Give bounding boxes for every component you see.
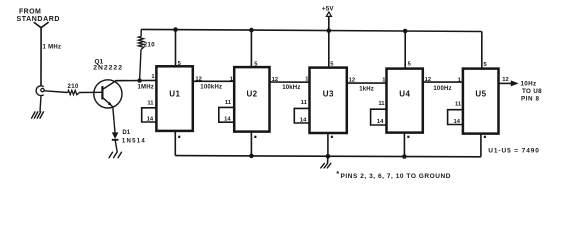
svg-text:210: 210 <box>144 42 155 48</box>
node: rail junction at U3 pin 5 <box>327 28 332 33</box>
wire: U3 pin 11 to pin 14 jumper loop <box>294 108 309 123</box>
svg-text:1N514: 1N514 <box>122 139 146 145</box>
svg-text:1kHz: 1kHz <box>359 86 374 92</box>
IC U3 (7490 decade counter) <box>310 68 347 133</box>
svg-text:14: 14 <box>224 117 231 123</box>
svg-text:10kHz: 10kHz <box>282 85 300 91</box>
node: ground rail junction at U2 <box>249 154 254 159</box>
svg-text:14: 14 <box>300 117 307 123</box>
wire: U2 pin 5 to +5V rail <box>250 30 252 67</box>
svg-text:11: 11 <box>147 100 154 106</box>
node: rail junction at U2 pin 5 <box>249 28 254 33</box>
resistor R2 210 (collector pull-up) <box>138 29 155 80</box>
wire: input drop to jack <box>40 28 42 86</box>
wire: U2 pin 11 to pin 14 jumper loop <box>219 107 234 122</box>
wire: U4 pin 5 to +5V rail <box>404 31 406 69</box>
wire: +5V rail (top) <box>141 29 482 31</box>
svg-text:*: * <box>336 169 339 178</box>
svg-text:U1: U1 <box>169 89 180 98</box>
svg-text:1 MHz: 1 MHz <box>43 45 62 51</box>
svg-text:2N2222: 2N2222 <box>93 64 123 71</box>
svg-text:STANDARD: STANDARD <box>17 16 61 23</box>
IC U4 (7490 decade counter) <box>387 69 423 133</box>
node: ground rail junction at U3 <box>326 154 331 159</box>
svg-text:PIN 8: PIN 8 <box>521 96 540 103</box>
diode D1 1N514 <box>112 130 146 144</box>
wire: U1 pin 5 to +5V rail <box>175 30 177 67</box>
svg-text:U3: U3 <box>323 89 334 98</box>
wire: U5 ground pin down to ground rail <box>480 134 482 157</box>
wire: emitter to diode D1 <box>113 107 115 132</box>
wire: jack shell to ground <box>40 96 41 112</box>
svg-text:U1-U5 = 7490: U1-U5 = 7490 <box>488 148 539 155</box>
svg-text:U5: U5 <box>475 89 486 98</box>
wire: U5 pin 12 output <box>499 82 512 84</box>
svg-text:5: 5 <box>484 62 488 68</box>
wire: jack to resistor R1 <box>44 91 67 93</box>
wire: U3 ground pin down to ground rail <box>327 133 329 156</box>
node: collector junction <box>137 78 141 82</box>
pin note asterisk U4 <box>407 136 409 138</box>
pin note asterisk U3 <box>331 136 333 138</box>
wire: ground rail stem <box>327 156 329 163</box>
svg-text:+5V: +5V <box>322 5 334 12</box>
svg-text:U2: U2 <box>247 89 258 98</box>
svg-text:PINS 2, 3, 6, 7, 10 TO GROUND: PINS 2, 3, 6, 7, 10 TO GROUND <box>341 173 451 180</box>
svg-text:100kHz: 100kHz <box>200 84 222 90</box>
wire: rail drop to U5 pin 5 <box>481 32 483 69</box>
wire: U2 pin 12 to U3 pin 1 <box>270 81 310 83</box>
wire: U3 pin 5 to +5V rail <box>328 31 330 68</box>
svg-text:5: 5 <box>408 61 412 67</box>
wire: U1 pin 12 to U2 pin 1 <box>193 80 234 82</box>
ground (rail) <box>321 163 331 168</box>
IC U1 (7490 decade counter) <box>156 66 192 131</box>
node: rail junction at U1 pin 5 <box>173 27 178 32</box>
wire: U3 pin 12 to U4 pin 1 <box>347 82 387 84</box>
power +5V <box>322 5 334 30</box>
wire: U1 pin 11 to pin 14 jumper loop <box>142 108 157 122</box>
wire: collector to U1 pin 1 <box>115 79 156 81</box>
svg-text:U4: U4 <box>399 89 410 98</box>
svg-text:TO U8: TO U8 <box>522 88 542 95</box>
svg-text:11: 11 <box>455 102 462 108</box>
pin note asterisk U2 <box>254 136 256 138</box>
wire: U5 pin 11 to pin 14 jumper loop <box>448 110 463 125</box>
node: rail junction at U4 pin 5 <box>403 29 408 34</box>
output arrow <box>511 80 519 86</box>
svg-text:D1: D1 <box>122 130 130 136</box>
connector J1 (input jack) <box>36 86 44 96</box>
svg-text:11: 11 <box>225 100 232 106</box>
pin note asterisk U5 <box>484 136 486 138</box>
svg-text:11: 11 <box>301 100 308 106</box>
svg-text:12: 12 <box>502 77 508 83</box>
svg-text:FROM: FROM <box>19 9 41 16</box>
wire: U4 pin 12 to U5 pin 1 <box>423 81 463 83</box>
wire: U4 ground pin down to ground rail <box>403 133 405 157</box>
svg-text:14: 14 <box>454 119 461 125</box>
svg-text:100Hz: 100Hz <box>433 86 451 92</box>
transistor Q1 2N2222 <box>94 80 122 108</box>
ground (jack shell) <box>32 112 44 118</box>
wire: R1 to Q1 base <box>79 91 102 93</box>
svg-text:14: 14 <box>147 117 154 123</box>
svg-text:1: 1 <box>151 74 155 80</box>
wire: diode to ground <box>115 140 117 152</box>
resistor R1 210 (series input) <box>68 90 80 94</box>
svg-text:14: 14 <box>377 119 384 125</box>
wire: U1 ground pin down to ground rail <box>174 131 176 156</box>
input arrow <box>34 23 48 28</box>
IC U5 (7490 decade counter) <box>463 69 499 134</box>
svg-text:10Hz: 10Hz <box>521 80 537 87</box>
wire: U4 pin 11 to pin 14 jumper loop <box>371 109 387 125</box>
wire: U2 ground pin down to ground rail <box>250 132 252 156</box>
ground (emitter diode) <box>109 152 122 158</box>
IC U2 (7490 decade counter) <box>234 67 269 132</box>
svg-text:11: 11 <box>378 101 385 107</box>
wire: ground rail (bottom) <box>175 156 481 157</box>
pin note asterisk U1 <box>178 136 180 138</box>
svg-text:1MHz: 1MHz <box>138 84 154 90</box>
svg-text:210: 210 <box>68 84 79 90</box>
node: ground rail junction at U4 <box>402 154 407 159</box>
